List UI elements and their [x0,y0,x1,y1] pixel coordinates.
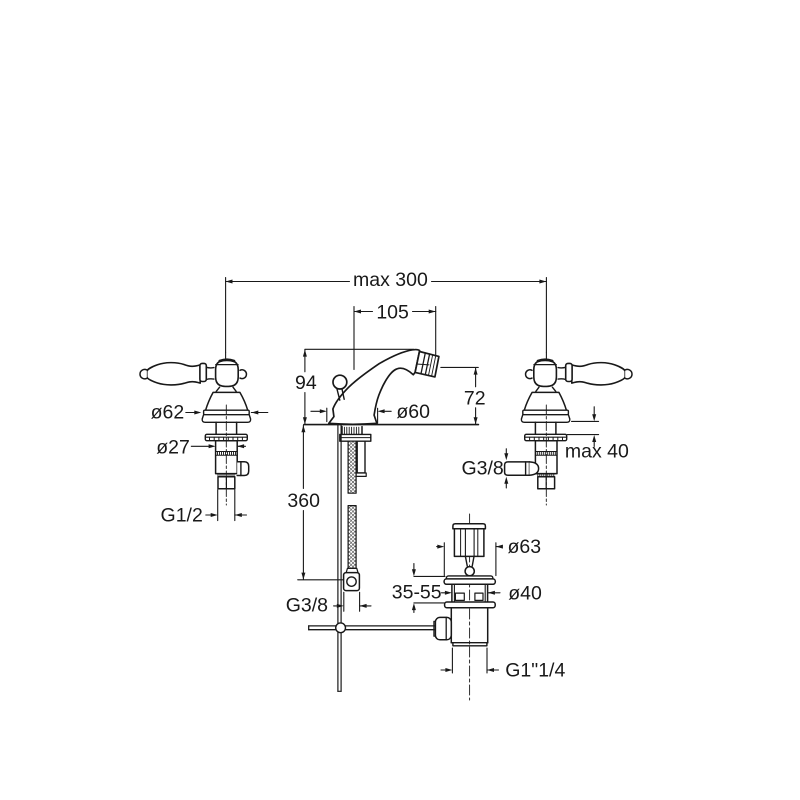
dimension 72 [441,367,486,424]
left valve body [216,441,238,474]
drain flange lower disc [444,579,495,584]
dimension G1/2 [161,490,247,527]
drain body pipe [450,608,452,643]
svg-text:G3/8: G3/8 [286,594,328,616]
svg-text:94: 94 [295,372,317,394]
mounting deck line [304,424,479,426]
svg-text:360: 360 [287,490,320,512]
dimension 360 [287,425,343,580]
dimension 94 [295,349,413,424]
dimension 35-55 [392,564,445,613]
spout mounting washer [340,434,371,441]
mounting stud [357,441,365,473]
svg-text:ø40: ø40 [508,582,542,604]
pop-up rod upper [337,425,339,623]
right valve lower thread band [538,474,554,477]
dimension G3/8 right valve inlet [461,449,508,488]
right valve bottom nut [538,477,555,489]
svg-text:max 40: max 40 [565,441,629,463]
right valve body [535,441,557,474]
dimension diameter 63 [437,536,541,576]
right handle centre line [545,405,547,505]
linkage pivot [336,623,346,633]
drain centre line [469,514,471,700]
flexible hose lower section [348,506,356,569]
plug stem [465,556,474,566]
drain flange upper disc [446,576,492,581]
svg-text:ø63: ø63 [507,536,541,558]
dimension max 300 [226,269,547,352]
svg-text:ø60: ø60 [396,401,430,423]
pop-up plug [454,529,484,557]
drain locknut [445,602,496,608]
dimension max 40 [565,407,629,463]
hose hex nut G3/8 [344,573,360,591]
svg-text:max 300: max 300 [353,269,428,291]
svg-text:G1"1/4: G1"1/4 [505,659,565,681]
dimension diameter 62 [151,401,268,423]
rod entry boss [435,617,451,639]
drain neck with overflow slots [451,584,453,602]
left valve thread band [218,452,236,455]
bidet mixer spout body [329,350,420,425]
right handle tap (mirrored lever, ball, bonnet) [521,352,632,440]
left handle centre line [225,405,227,505]
svg-text:105: 105 [376,301,409,323]
dimension diameter 40 [442,582,542,604]
right valve thread band [537,452,555,455]
stem ball joint [465,567,474,576]
svg-text:35-55: 35-55 [392,581,442,603]
left valve lower thread band [218,474,234,477]
svg-text:72: 72 [464,388,486,410]
svg-text:ø27: ø27 [156,436,190,458]
svg-text:ø62: ø62 [151,401,185,423]
left valve bottom nut [218,477,235,489]
svg-text:G1/2: G1/2 [161,505,203,527]
right valve side inlet tube G3/8 [505,462,530,475]
left valve side outlet nub [237,462,249,476]
dimension diameter 27 [156,436,245,458]
dimension G1"1/4 [441,648,565,681]
right inlet dome cap [529,462,538,475]
hose collar [346,568,358,572]
pop-up knob [337,389,344,401]
svg-text:G3/8: G3/8 [461,457,503,479]
flexible hose upper section [348,441,356,493]
left handle tap (lever, ball, bonnet) [140,352,251,440]
aerator outlet [415,352,439,377]
dimension G3/8 hose nut [286,592,371,616]
pop-up linkage bar [309,625,436,627]
dimension 105 [354,301,436,369]
pop-up rod lower [337,633,339,692]
dimension diameter 60 [311,401,430,423]
spout threaded shank [341,427,343,435]
